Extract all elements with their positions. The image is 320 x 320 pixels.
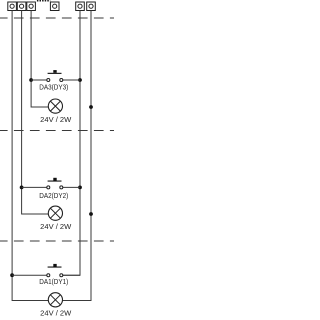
boundary dashed line top [0,17,114,19]
lamp DY1 circle [48,293,62,307]
pushbutton DA1 contacts [47,274,63,277]
lamp DY2 circle [48,206,62,220]
pushbutton DA2 bridge bar [48,181,62,182]
wire: bus B from X6 down to DA1 lamp [62,11,91,301]
node: junction X1 wire / DA1 switch branch [10,273,14,277]
lamp DY3 cross [50,101,60,111]
terminal strip dotted continuation [37,0,50,2]
node: junction X3 wire / DA3 switch branch [29,78,33,82]
terminal X2 [17,2,26,11]
pushbutton DA3 button nub [53,70,56,73]
wire: vertical from X3 down to lamp DA3 row [31,11,48,108]
pushbutton DA2 contacts [47,186,63,189]
pushbutton DA3 contacts [47,79,63,82]
pushbutton DA3 bridge bar [48,73,62,74]
wire: DA2 switch row right [63,186,80,188]
terminal X3 [27,2,36,11]
terminal X6 [87,2,96,11]
node: bus B junction at DA2 lamp [89,212,93,216]
node: junction X2 wire / DA2 switch branch [20,186,24,190]
wire: vertical from X2 down to lamp DA2 row [22,11,49,215]
svg-text:DA3(DY3): DA3(DY3) [39,83,68,92]
terminal X5 [76,2,85,11]
svg-text:24V / 2W: 24V / 2W [40,115,71,124]
pushbutton DA1 bridge bar [48,267,62,268]
wire: vertical from X1 down to lamp DA1 row [12,11,48,301]
terminal X4 (spare) [50,2,59,11]
boundary dashed line middle [0,130,114,132]
pushbutton DA2 button nub [53,178,56,181]
lamp DY3 circle [48,99,62,113]
wire: DA1 switch row left [12,274,47,276]
svg-text:24V / 2W: 24V / 2W [40,222,71,231]
svg-text:24V / 2W: 24V / 2W [40,309,71,318]
lamp DY1 cross [50,295,60,305]
wire: DA2 switch row left [22,186,47,188]
wire: DA3 switch row right [63,79,80,81]
lamp DY2 cross [50,208,60,218]
node: bus A junction at DA2 switch [78,186,82,190]
node: bus B junction at DA3 lamp [89,105,93,109]
svg-text:DA2(DY2): DA2(DY2) [39,191,68,200]
wire: bus A from X5 down to DA1 switch [63,11,80,276]
svg-text:DA1(DY1): DA1(DY1) [39,277,68,286]
terminal X1 [8,2,17,11]
boundary dashed line bottom [0,240,114,242]
pushbutton DA1 button nub [53,264,56,267]
wire: DA3 switch row left [31,79,47,81]
node: bus A junction at DA3 switch [78,78,82,82]
wire: DA1 switch row right [63,274,80,276]
